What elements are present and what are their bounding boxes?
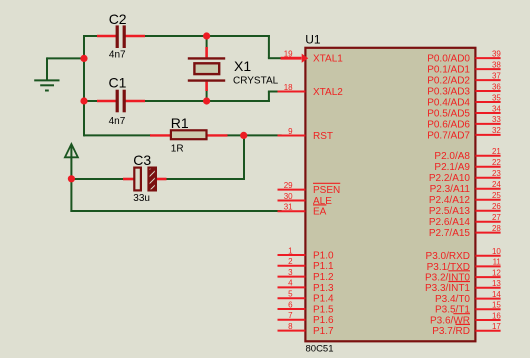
svg-text:2: 2	[288, 257, 293, 266]
pin 26 (P2.5/A13) right	[429, 202, 502, 217]
wire: crystal bottom vertical	[206, 89, 208, 102]
node: GND tap on rail	[80, 55, 87, 62]
wire: C3 row left segment to power rail	[70, 178, 124, 180]
svg-text:38: 38	[492, 60, 501, 69]
svg-text:9: 9	[288, 127, 293, 136]
pin 4 (P1.3) left	[278, 279, 335, 294]
svg-text:P0.7/AD7: P0.7/AD7	[427, 130, 470, 141]
pin 18 (XTAL2) left	[278, 83, 344, 98]
svg-text:P0.1/AD1: P0.1/AD1	[427, 65, 470, 76]
pin 39 (P0.0/AD0) right	[427, 49, 501, 64]
pin 1 (P1.0) left	[278, 246, 335, 261]
svg-text:22: 22	[492, 158, 501, 167]
pin 27 (P2.6/A14) right	[429, 213, 502, 228]
svg-text:P2.3/A11: P2.3/A11	[430, 184, 471, 195]
svg-text:P0.5/AD5: P0.5/AD5	[427, 108, 470, 119]
svg-text:P2.1/A9: P2.1/A9	[434, 162, 470, 173]
svg-text:15: 15	[492, 301, 501, 310]
svg-text:12: 12	[492, 268, 501, 277]
power terminal (up arrow)	[65, 144, 78, 157]
svg-text:P3.7/RD: P3.7/RD	[432, 326, 470, 337]
svg-text:XTAL2: XTAL2	[313, 87, 343, 98]
wire: C3 branch vertical (RST junction down)	[243, 135, 245, 180]
svg-text:R1: R1	[171, 115, 189, 131]
svg-text:34: 34	[492, 104, 501, 113]
svg-text:17: 17	[492, 322, 501, 331]
svg-text:32: 32	[492, 126, 501, 135]
wire: ground tap horizontal	[47, 57, 84, 59]
node: crystal bottom / C1 row	[203, 97, 210, 104]
svg-text:RST: RST	[313, 131, 333, 142]
pin 15 (P3.5/T1) right	[435, 301, 501, 316]
pin 34 (P0.5/AD5) right	[427, 104, 501, 119]
capacitor C1	[97, 74, 145, 127]
pin 33 (P0.6/AD6) right	[427, 115, 501, 130]
pin 12 (P3.2/INT0) right	[425, 268, 501, 283]
pin 29 (PSEN) left	[278, 181, 341, 196]
svg-text:27: 27	[492, 213, 501, 222]
svg-text:37: 37	[492, 71, 501, 80]
svg-text:CRYSTAL: CRYSTAL	[233, 76, 279, 87]
wire: ground tap vertical	[46, 57, 48, 80]
svg-text:P3.0/RXD: P3.0/RXD	[426, 251, 470, 262]
svg-text:18: 18	[284, 83, 293, 92]
svg-text:EA: EA	[313, 207, 327, 218]
pin 37 (P0.2/AD2) right	[427, 71, 501, 86]
wire: RST row left segment (rail to R1)	[84, 134, 151, 136]
svg-text:P2.6/A14: P2.6/A14	[429, 217, 471, 228]
svg-text:3: 3	[288, 268, 293, 277]
wire: C2 row right segment to XTAL1 corner	[145, 35, 270, 37]
svg-text:C1: C1	[109, 74, 127, 90]
svg-text:P1.4: P1.4	[313, 294, 334, 305]
pin 28 (P2.7/A15) right	[429, 224, 502, 239]
wire: XTAL1 horizontal into pin	[268, 57, 282, 59]
svg-text:U1: U1	[305, 32, 321, 46]
svg-text:5: 5	[288, 290, 293, 299]
svg-text:21: 21	[492, 147, 501, 156]
wire: C3 row right segment	[165, 178, 245, 180]
svg-text:C3: C3	[133, 152, 151, 168]
svg-text:X1: X1	[234, 58, 251, 74]
wire: C1 row left segment	[83, 100, 98, 102]
svg-text:4n7: 4n7	[109, 116, 126, 127]
svg-text:33u: 33u	[133, 193, 150, 204]
svg-text:23: 23	[492, 169, 501, 178]
svg-text:P3.3/INT1: P3.3/INT1	[425, 283, 470, 294]
svg-text:1: 1	[288, 246, 293, 255]
pin 5 (P1.4) left	[278, 290, 335, 305]
pin 2 (P1.1) left	[278, 257, 335, 272]
svg-text:10: 10	[492, 247, 501, 256]
wire: power rail vertical (arrow stem)	[70, 146, 72, 213]
svg-text:39: 39	[492, 49, 501, 58]
pin 32 (P0.7/AD7) right	[427, 126, 501, 141]
svg-text:1R: 1R	[171, 144, 184, 155]
node: C1 row on rail	[80, 97, 87, 104]
svg-text:P1.1: P1.1	[313, 261, 334, 272]
svg-text:28: 28	[492, 224, 501, 233]
wire: EA row horizontal	[70, 210, 281, 212]
svg-text:7: 7	[288, 311, 293, 320]
svg-text:80C51: 80C51	[306, 344, 334, 355]
svg-text:P0.6/AD6: P0.6/AD6	[427, 119, 470, 130]
pin 25 (P2.4/A12) right	[429, 191, 502, 206]
svg-text:P2.5/A13: P2.5/A13	[429, 206, 471, 217]
node: RST / C3 branch	[240, 132, 247, 139]
svg-text:PSEN: PSEN	[313, 185, 340, 196]
ground	[34, 80, 59, 90]
pin 30 (ALE) left	[278, 192, 333, 207]
svg-text:25: 25	[492, 191, 501, 200]
svg-text:29: 29	[284, 181, 293, 190]
svg-text:35: 35	[492, 93, 501, 102]
pin 11 (P3.1/TXD) right	[427, 258, 502, 273]
pin 14 (P3.4/T0) right	[435, 290, 501, 305]
svg-text:P1.5: P1.5	[313, 304, 334, 315]
pin 38 (P0.1/AD1) right	[427, 60, 501, 75]
svg-text:P0.2/AD2: P0.2/AD2	[427, 76, 470, 87]
wire: RST row right segment (R1 to pin 9)	[227, 134, 282, 136]
pin 21 (P2.0/A8) right	[434, 147, 501, 162]
svg-text:19: 19	[284, 50, 293, 59]
pin 16 (P3.6/WR) right	[430, 311, 501, 326]
resistor R1	[150, 115, 228, 155]
svg-text:4n7: 4n7	[109, 50, 126, 61]
svg-text:P1.6: P1.6	[313, 315, 334, 326]
pin 10 (P3.0/RXD) right	[426, 247, 502, 262]
pin 7 (P1.6) left	[278, 311, 335, 326]
svg-text:36: 36	[492, 82, 501, 91]
svg-text:P2.7/A15: P2.7/A15	[429, 228, 471, 239]
svg-text:P0.4/AD4: P0.4/AD4	[427, 97, 470, 108]
pin 22 (P2.1/A9) right	[434, 158, 501, 173]
svg-text:24: 24	[492, 180, 501, 189]
wire: crystal top vertical	[206, 36, 208, 48]
pin 24 (P2.3/A11) right	[430, 180, 502, 195]
svg-text:P0.3/AD3: P0.3/AD3	[427, 86, 470, 97]
pin 35 (P0.4/AD4) right	[427, 93, 501, 108]
svg-text:C2: C2	[109, 11, 127, 27]
svg-text:13: 13	[492, 279, 501, 288]
pin 6 (P1.5) left	[278, 300, 335, 315]
pin 36 (P0.3/AD3) right	[427, 82, 501, 97]
svg-text:P3.4/T0: P3.4/T0	[435, 294, 470, 305]
svg-text:16: 16	[492, 311, 501, 320]
svg-text:XTAL1: XTAL1	[313, 54, 343, 65]
svg-text:P1.3: P1.3	[313, 283, 334, 294]
svg-text:26: 26	[492, 202, 501, 211]
pin 13 (P3.3/INT1) right	[425, 279, 501, 294]
wire: XTAL1 drop vertical	[268, 35, 270, 58]
pin 23 (P2.2/A10) right	[429, 169, 502, 184]
svg-text:P2.2/A10: P2.2/A10	[429, 173, 471, 184]
pin 19 (XTAL1) left	[281, 50, 344, 65]
svg-text:P2.0/A8: P2.0/A8	[434, 151, 470, 162]
svg-text:4: 4	[288, 279, 293, 288]
svg-text:8: 8	[288, 322, 293, 331]
svg-text:11: 11	[493, 258, 502, 267]
wire: left GND rail vertical	[83, 35, 85, 136]
pin 9 (RST) left	[278, 127, 334, 142]
pin 31 (EA) left	[278, 203, 327, 218]
pin 17 (P3.7/RD) right	[432, 322, 501, 337]
svg-text:33: 33	[492, 115, 501, 124]
crystal X1	[188, 47, 279, 91]
svg-text:30: 30	[284, 192, 293, 201]
svg-text:P1.0: P1.0	[313, 250, 334, 261]
wire: C2 row left segment	[83, 35, 98, 37]
svg-text:P1.7: P1.7	[313, 326, 334, 337]
op: IC U1 80C51 body	[305, 32, 475, 354]
node: power rail / C3 row	[68, 175, 75, 182]
svg-text:P2.4/A12: P2.4/A12	[429, 195, 471, 206]
pin 8 (P1.7) left	[278, 322, 335, 337]
svg-text:P0.0/AD0: P0.0/AD0	[427, 54, 470, 65]
svg-text:P1.2: P1.2	[313, 272, 334, 283]
pin 3 (P1.2) left	[278, 268, 335, 283]
capacitor C3 (electrolytic)	[123, 152, 167, 204]
wire: XTAL2 horizontal into pin	[268, 91, 282, 93]
svg-text:6: 6	[288, 300, 293, 309]
svg-text:31: 31	[284, 203, 293, 212]
wire: C1 row right segment to crystal/XTAL2	[145, 100, 270, 102]
wire: XTAL2 rise vertical	[268, 92, 270, 103]
svg-text:14: 14	[492, 290, 501, 299]
capacitor C2	[97, 11, 145, 61]
node: crystal top / C2 row	[203, 32, 210, 39]
